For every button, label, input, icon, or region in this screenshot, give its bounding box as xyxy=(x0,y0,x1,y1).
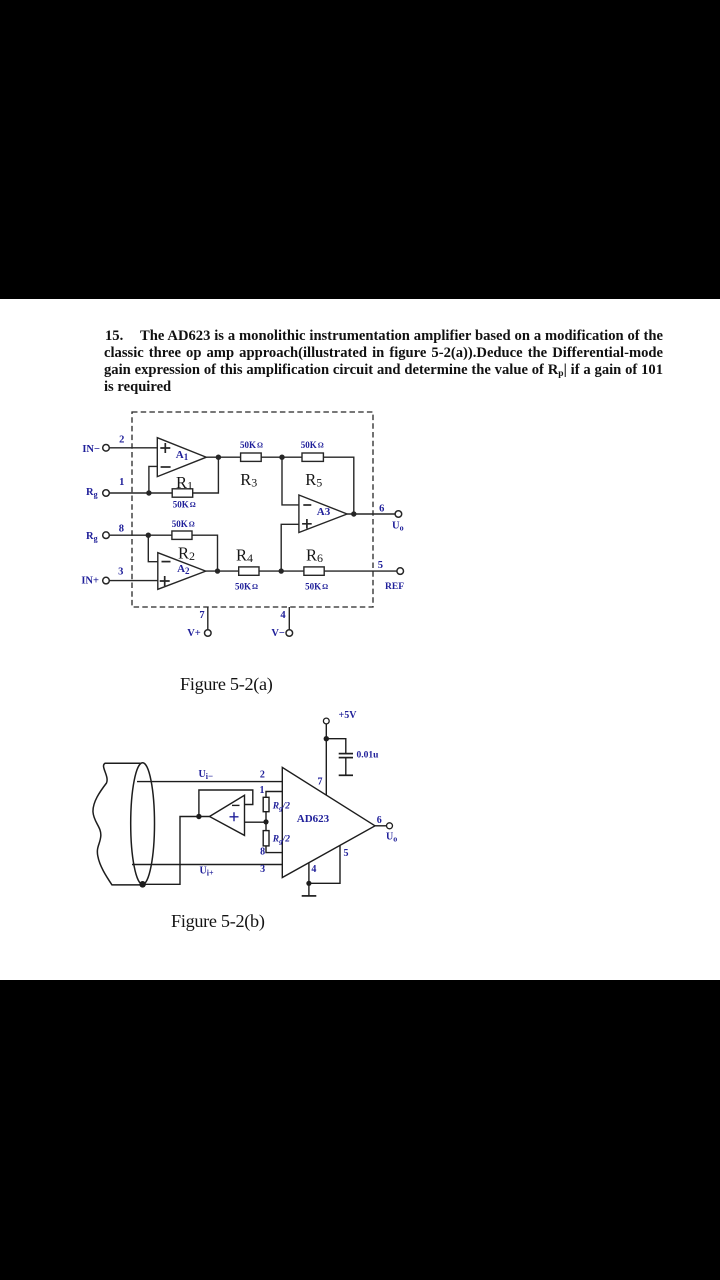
terminal pin1 Rg xyxy=(103,490,110,497)
wire cap lower lead xyxy=(345,758,347,775)
svg-text:R4: R4 xyxy=(236,546,253,566)
wire pin8 Rg line to R2 xyxy=(109,534,172,536)
svg-text:50KΩ: 50KΩ xyxy=(301,440,324,450)
svg-text:3: 3 xyxy=(118,566,123,577)
svg-text:5: 5 xyxy=(378,560,383,571)
svg-text:Rg: Rg xyxy=(86,487,98,499)
wire Ui+ to pin3 xyxy=(132,864,282,866)
minus sign A2 input xyxy=(162,561,171,563)
svg-text:R3: R3 xyxy=(240,470,257,490)
wire node to A3 noninverting input xyxy=(281,524,299,571)
minus sign A1 input xyxy=(161,466,171,468)
svg-text:+5V: +5V xyxy=(339,710,358,721)
resistor R1 50K xyxy=(172,489,193,497)
wire pin1 to Rg/2 top xyxy=(266,792,282,798)
svg-text:8: 8 xyxy=(260,846,265,857)
terminal pin4 V- xyxy=(286,630,293,637)
capacitor C 0.01u bottom plate xyxy=(339,757,353,759)
plus sign A2 input xyxy=(160,576,170,586)
svg-text:50KΩ: 50KΩ xyxy=(235,581,258,591)
wire A1 output to R3 xyxy=(206,456,240,458)
wire decoupling cap branch xyxy=(326,739,346,753)
wire pin7 supply lead xyxy=(325,724,327,796)
svg-text:1: 1 xyxy=(119,477,124,488)
svg-text:Uo: Uo xyxy=(386,832,397,844)
svg-text:2: 2 xyxy=(260,770,265,781)
terminal pin6 Uo xyxy=(395,511,402,518)
wire pin1 Rg line to R1 xyxy=(109,492,172,494)
terminal +5V xyxy=(323,718,329,724)
svg-text:IN+: IN+ xyxy=(81,575,99,586)
svg-text:Rg: Rg xyxy=(86,531,98,543)
svg-text:R6: R6 xyxy=(306,546,323,566)
resistor R5 50K xyxy=(302,453,323,461)
svg-text:50KΩ: 50KΩ xyxy=(172,519,195,529)
wire pin4 to ground xyxy=(308,863,310,896)
svg-text:50KΩ: 50KΩ xyxy=(240,440,263,450)
wire R1 right end up to A1 output node xyxy=(193,457,219,493)
svg-text:Rg/2: Rg/2 xyxy=(272,835,290,846)
svg-text:6: 6 xyxy=(377,815,382,826)
resistor R6 50K xyxy=(304,567,324,575)
wire A3 output to pin6 xyxy=(347,513,395,515)
shielded cable shield ellipse xyxy=(131,763,155,885)
junction node A3 output xyxy=(351,511,356,516)
svg-text:6: 6 xyxy=(379,504,384,515)
wire R5 right end down to A3 output xyxy=(323,457,353,514)
svg-text:50KΩ: 50KΩ xyxy=(305,581,328,591)
op-amp A1 xyxy=(157,438,206,477)
minus sign buffer inverting input xyxy=(232,804,240,806)
svg-text:IN−: IN− xyxy=(82,444,100,455)
wire A1 inverting input feedback xyxy=(149,466,157,493)
junction shield terminal dot xyxy=(139,881,146,888)
svg-text:Rg/2: Rg/2 xyxy=(272,802,290,813)
terminal pin2 IN- xyxy=(103,445,110,452)
terminal pin5 REF xyxy=(397,568,404,575)
wire A2 output to R4 xyxy=(206,570,239,572)
wire node to A3 inverting input xyxy=(282,457,299,505)
svg-text:V+: V+ xyxy=(187,628,201,639)
wire pin4 V- lead xyxy=(288,607,290,630)
white page area xyxy=(0,299,720,980)
svg-text:AD623: AD623 xyxy=(297,813,330,825)
wire R3 to R5 xyxy=(261,456,302,458)
wire pin7 V+ lead xyxy=(207,607,209,630)
wire R4 to R6 xyxy=(259,570,304,572)
dashed IC boundary box xyxy=(132,412,373,607)
resistor Rg/2 lower xyxy=(263,831,269,846)
svg-text:R5: R5 xyxy=(305,470,322,490)
terminal pin8 Rg xyxy=(103,532,110,539)
minus sign A3 input xyxy=(303,504,311,506)
junction node pin8 feedback xyxy=(146,533,151,538)
wire A2 inverting input feedback xyxy=(148,535,158,562)
wire Rg/2 top to midpoint node xyxy=(265,812,267,831)
svg-text:Ui−: Ui− xyxy=(199,769,214,781)
plus sign buffer noninverting input xyxy=(230,812,239,821)
op-amp A3 xyxy=(299,495,347,533)
junction node R3-R5 to A3 inverting xyxy=(279,455,284,460)
junction node A2 output xyxy=(215,568,220,573)
caption figure 5-2(a) xyxy=(180,674,273,695)
svg-text:R1: R1 xyxy=(176,473,193,493)
svg-text:3: 3 xyxy=(260,864,265,875)
junction node A1 output xyxy=(216,455,221,460)
junction buffer output node xyxy=(196,814,201,819)
wire pin2 to A1 noninverting input xyxy=(109,447,157,449)
svg-text:4: 4 xyxy=(280,610,286,621)
plus sign A3 input xyxy=(302,519,312,529)
terminal pin6 Uo output xyxy=(387,823,393,829)
caption figure 5-2(b) xyxy=(171,911,265,932)
resistor Rg/2 upper xyxy=(263,797,269,811)
svg-text:5: 5 xyxy=(344,848,349,859)
wire R2 right end down to A2 output node xyxy=(192,535,218,571)
resistor R2 50K xyxy=(172,531,192,539)
svg-text:A3: A3 xyxy=(317,506,331,518)
capacitor C 0.01u top plate xyxy=(339,753,353,755)
wire R6 to pin5 REF xyxy=(324,570,397,572)
wire Rg/2 bottom to pin8 xyxy=(266,846,282,853)
wire shield to guard buffer output xyxy=(143,817,210,885)
problem statement number xyxy=(105,328,123,345)
terminal pin7 V+ xyxy=(205,630,212,637)
svg-text:Uo: Uo xyxy=(392,521,404,533)
AD623 amplifier triangle xyxy=(282,767,375,877)
svg-text:7: 7 xyxy=(318,776,323,787)
guard buffer op-amp xyxy=(210,795,245,835)
junction Rg midpoint node xyxy=(263,819,268,824)
junction node pin1 feedback xyxy=(146,490,151,495)
problem statement text xyxy=(104,328,663,396)
junction node R4-R6 to A3 noninverting xyxy=(279,568,284,573)
svg-text:Ui+: Ui+ xyxy=(200,865,214,877)
resistor R3 50K xyxy=(241,453,262,461)
svg-text:1: 1 xyxy=(260,785,265,796)
svg-text:2: 2 xyxy=(119,435,124,446)
terminal pin3 IN+ xyxy=(103,577,110,584)
svg-text:7: 7 xyxy=(199,610,204,621)
capacitor return bar xyxy=(339,774,353,776)
wire Ui- to pin2 xyxy=(137,781,282,783)
plus sign A1 input xyxy=(160,443,170,453)
svg-text:50KΩ: 50KΩ xyxy=(173,499,196,509)
svg-text:R2: R2 xyxy=(178,544,195,564)
wire pin3 to A2 noninverting input xyxy=(109,580,158,582)
resistor R4 50K xyxy=(239,567,259,575)
junction +5V supply node xyxy=(324,736,329,741)
ground bar xyxy=(302,895,317,897)
svg-text:0.01u: 0.01u xyxy=(357,750,380,760)
wire pin6 output xyxy=(375,825,387,827)
svg-text:4: 4 xyxy=(311,864,316,875)
svg-text:8: 8 xyxy=(119,523,124,534)
shielded cable body outline xyxy=(93,763,143,885)
wire pin5 to ground bus xyxy=(309,845,340,883)
junction ground bus node xyxy=(306,881,311,886)
wire buffer feedback loop xyxy=(199,790,253,817)
svg-text:REF: REF xyxy=(385,582,404,592)
svg-text:V−: V− xyxy=(271,628,285,639)
wire buffer noninverting input to Rg midpoint xyxy=(245,821,267,823)
op-amp A2 xyxy=(158,553,206,590)
